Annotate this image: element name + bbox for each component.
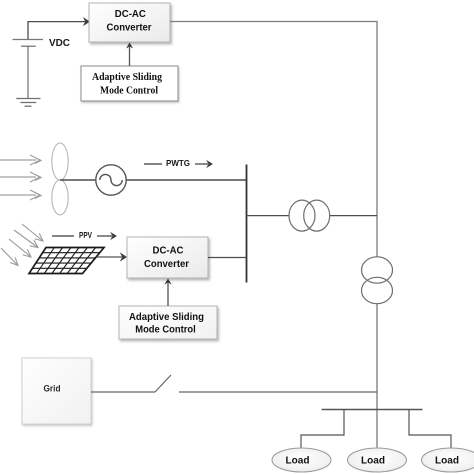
svg-text:Converter: Converter xyxy=(144,258,189,270)
svg-text:Mode Control: Mode Control xyxy=(135,324,196,336)
svg-text:Load: Load xyxy=(361,456,385,467)
svg-text:Converter: Converter xyxy=(107,22,152,34)
svg-text:Adaptive Sliding: Adaptive Sliding xyxy=(92,72,163,83)
svg-text:PWTG: PWTG xyxy=(166,158,190,168)
svg-text:Grid: Grid xyxy=(44,384,61,394)
svg-text:Load: Load xyxy=(286,456,310,467)
svg-text:Mode Control: Mode Control xyxy=(100,86,158,97)
svg-text:DC-AC: DC-AC xyxy=(115,8,146,20)
svg-text:Load: Load xyxy=(435,456,459,467)
svg-text:Adaptive Sliding: Adaptive Sliding xyxy=(129,311,204,323)
svg-text:PPV: PPV xyxy=(79,230,92,240)
svg-text:DC-AC: DC-AC xyxy=(153,245,184,257)
svg-text:VDC: VDC xyxy=(49,38,70,49)
